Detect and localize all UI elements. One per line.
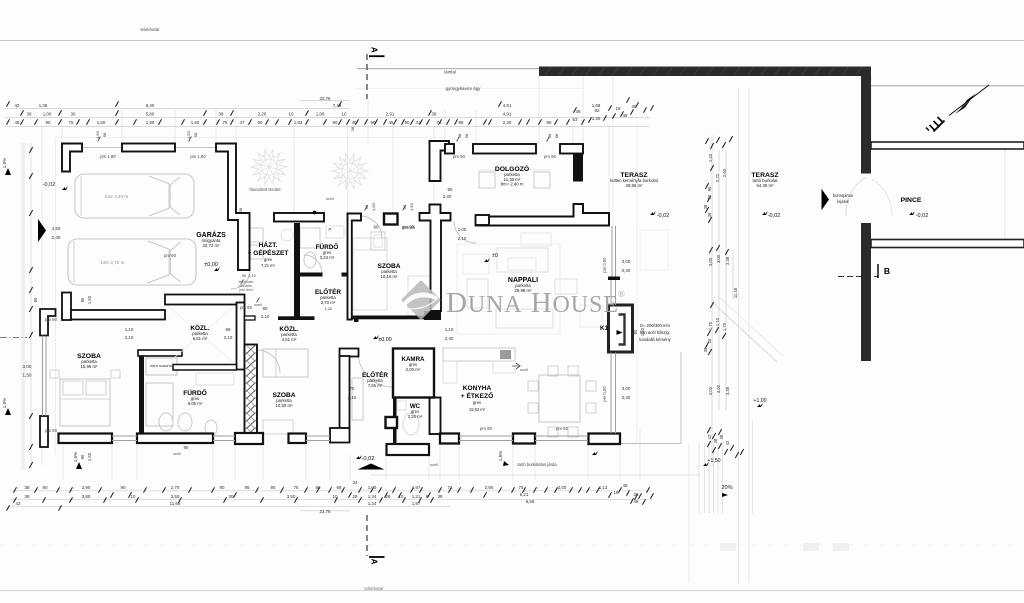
svg-text:1,5%: 1,5% — [2, 158, 7, 168]
svg-text:98: 98 — [459, 120, 464, 125]
svg-text:38: 38 — [703, 204, 708, 209]
svg-text:58: 58 — [102, 132, 107, 137]
svg-text:10: 10 — [131, 494, 136, 499]
svg-text:38: 38 — [219, 112, 224, 117]
svg-text:75: 75 — [69, 120, 74, 125]
svg-text:5,80: 5,80 — [146, 112, 155, 117]
svg-text:45: 45 — [389, 120, 394, 125]
svg-text:11,48: 11,48 — [733, 287, 738, 298]
svg-text:1,10: 1,10 — [445, 327, 454, 332]
svg-text:K1: K1 — [600, 325, 608, 332]
svg-text:6,21: 6,21 — [520, 492, 529, 497]
svg-text:90: 90 — [402, 204, 407, 209]
svg-text:DUNA HOUSE: DUNA HOUSE — [446, 287, 619, 319]
svg-text:lejárat: lejárat — [837, 199, 849, 204]
svg-text:98: 98 — [226, 327, 231, 332]
svg-text:3,38: 3,38 — [725, 386, 730, 395]
svg-text:+1,00: +1,00 — [753, 398, 766, 404]
svg-text:1,50: 1,50 — [371, 202, 376, 211]
svg-text:90: 90 — [547, 120, 552, 125]
svg-text:10,16 m²: 10,16 m² — [381, 274, 399, 279]
svg-text:A: A — [370, 559, 379, 565]
svg-text:4,51 m²: 4,51 m² — [282, 337, 297, 342]
svg-text:90: 90 — [33, 297, 38, 302]
svg-text:szell: szell — [326, 196, 334, 201]
svg-text:szell: szell — [254, 302, 262, 307]
svg-text:2,10: 2,10 — [248, 274, 255, 278]
svg-text:gres: gres — [264, 257, 272, 262]
svg-text:90: 90 — [242, 274, 246, 278]
svg-text:90: 90 — [448, 187, 453, 192]
svg-text:63: 63 — [573, 117, 578, 122]
svg-text:4,50: 4,50 — [52, 226, 61, 231]
svg-text:pm 1,80: pm 1,80 — [190, 154, 206, 159]
svg-text:2,10: 2,10 — [125, 335, 134, 340]
svg-text:75: 75 — [223, 120, 228, 125]
svg-text:3,50: 3,50 — [287, 494, 296, 499]
svg-text:HÁZT.: HÁZT. — [259, 240, 278, 249]
svg-text:92: 92 — [595, 108, 600, 113]
svg-text:2,70 m²: 2,70 m² — [321, 300, 336, 305]
svg-text:-0,02: -0,02 — [916, 213, 929, 219]
svg-text:2,00: 2,00 — [558, 485, 567, 490]
svg-text:1,30: 1,30 — [592, 116, 601, 121]
svg-text:2,70: 2,70 — [171, 485, 180, 490]
svg-text:3,50: 3,50 — [171, 494, 180, 499]
svg-text:1,34: 1,34 — [368, 501, 377, 506]
svg-text:4,91: 4,91 — [503, 103, 512, 108]
svg-text:pm 90: pm 90 — [480, 426, 493, 431]
svg-text:bm= 2,40 m: bm= 2,40 m — [501, 182, 524, 187]
svg-text:2,40: 2,40 — [622, 395, 631, 400]
svg-text:3,38: 3,38 — [725, 256, 730, 265]
svg-text:90: 90 — [43, 485, 48, 490]
svg-text:10: 10 — [289, 112, 294, 117]
svg-text:30: 30 — [634, 492, 639, 497]
svg-text:pm 90: pm 90 — [556, 426, 569, 431]
svg-text:28: 28 — [386, 494, 391, 499]
svg-text:3,00: 3,00 — [622, 259, 631, 264]
svg-text:2,40: 2,40 — [52, 235, 61, 240]
svg-text:bmr 2,40 m: bmr 2,40 m — [105, 194, 128, 199]
svg-text:+ GÉPÉSZET: + GÉPÉSZET — [248, 248, 289, 257]
svg-text:pm 90: pm 90 — [240, 305, 253, 310]
svg-text:45: 45 — [352, 120, 357, 125]
svg-text:90: 90 — [220, 485, 225, 490]
svg-text:tartó burkolatos járda: tartó burkolatos járda — [517, 462, 557, 467]
svg-text:szell: szell — [173, 451, 181, 456]
svg-text:2,90: 2,90 — [82, 485, 91, 490]
svg-text:38: 38 — [576, 109, 581, 114]
svg-text:3,00: 3,00 — [23, 364, 32, 369]
svg-text:1,97: 1,97 — [412, 485, 421, 490]
svg-text:2,10: 2,10 — [224, 335, 233, 340]
svg-text:pm 90: pm 90 — [544, 154, 557, 159]
svg-text:1,21: 1,21 — [412, 494, 421, 499]
svg-text:38: 38 — [707, 212, 712, 217]
svg-text:kandalló kémény: kandalló kémény — [639, 337, 671, 342]
svg-text:2,91: 2,91 — [386, 112, 395, 117]
svg-text:1,5%: 1,5% — [73, 452, 78, 462]
svg-text:pm 90: pm 90 — [164, 253, 177, 258]
svg-text:2,90: 2,90 — [485, 485, 494, 490]
svg-text:38: 38 — [719, 434, 724, 439]
svg-text:2,25 m²: 2,25 m² — [408, 414, 423, 419]
svg-text:2,10: 2,10 — [348, 395, 357, 400]
svg-text:2,00 m²: 2,00 m² — [406, 367, 421, 372]
svg-text:90: 90 — [46, 120, 51, 125]
svg-text:PINCE: PINCE — [901, 197, 922, 204]
svg-text:®: ® — [618, 289, 625, 299]
svg-text:telekhatár: telekhatár — [140, 27, 160, 32]
svg-text:42: 42 — [16, 501, 21, 506]
svg-text:90: 90 — [271, 485, 276, 490]
svg-text:31: 31 — [416, 120, 421, 125]
svg-text:1,70: 1,70 — [708, 321, 713, 330]
svg-text:1,5%: 1,5% — [498, 451, 503, 461]
svg-text:gyöngykavics ágy: gyöngykavics ágy — [446, 86, 481, 91]
svg-text:2,10: 2,10 — [458, 236, 467, 241]
svg-text:38: 38 — [25, 494, 30, 499]
svg-text:18: 18 — [614, 490, 619, 495]
svg-text:pm 90: pm 90 — [45, 428, 58, 433]
svg-text:3,00: 3,00 — [716, 254, 721, 263]
svg-text:-0,02: -0,02 — [43, 182, 56, 188]
svg-text:48: 48 — [15, 120, 20, 125]
svg-text:58: 58 — [554, 133, 559, 138]
svg-text:1,10: 1,10 — [125, 327, 134, 332]
svg-text:bmr 2,70 m: bmr 2,70 m — [101, 260, 124, 265]
svg-text:3,00: 3,00 — [716, 384, 721, 393]
svg-text:28,86 m²: 28,86 m² — [626, 183, 644, 188]
svg-text:1,50: 1,50 — [97, 120, 106, 125]
svg-text:90: 90 — [263, 306, 268, 311]
svg-text:pm 0,00: pm 0,00 — [602, 386, 607, 402]
svg-text:6,59: 6,59 — [526, 499, 535, 504]
svg-text:+1,50: +1,50 — [707, 458, 720, 464]
svg-text:75: 75 — [519, 485, 524, 490]
svg-text:9,06 m²: 9,06 m² — [188, 401, 203, 406]
svg-text:10: 10 — [399, 494, 404, 499]
svg-text:1,40: 1,40 — [708, 153, 713, 162]
svg-text:1,50: 1,50 — [409, 202, 414, 211]
svg-text:90: 90 — [80, 297, 85, 302]
svg-text:20%: 20% — [721, 485, 732, 491]
svg-text:32,72 m²: 32,72 m² — [203, 243, 221, 248]
svg-text:90: 90 — [316, 485, 321, 490]
svg-text:38: 38 — [713, 438, 718, 443]
svg-text:38: 38 — [703, 347, 708, 352]
svg-text:42: 42 — [725, 440, 730, 445]
svg-text:telekhatár: telekhatár — [364, 586, 384, 591]
svg-text:1,50: 1,50 — [87, 295, 92, 304]
svg-text:30: 30 — [707, 194, 712, 199]
svg-text:22,76: 22,76 — [320, 96, 332, 101]
svg-text:infra szauna: infra szauna — [150, 363, 173, 368]
svg-text:szell: szell — [430, 462, 438, 467]
svg-text:2,10: 2,10 — [261, 314, 270, 319]
svg-text:30: 30 — [632, 104, 637, 109]
svg-text:2,22: 2,22 — [715, 173, 720, 182]
svg-text:1,97: 1,97 — [412, 501, 421, 506]
svg-text:10,50 m²: 10,50 m² — [276, 403, 294, 408]
svg-text:90: 90 — [121, 485, 126, 490]
svg-text:3,24 m²: 3,24 m² — [320, 255, 335, 260]
svg-text:pm 90: pm 90 — [403, 225, 416, 230]
svg-text:±0: ±0 — [492, 253, 498, 259]
svg-text:30: 30 — [229, 494, 234, 499]
svg-text:1,50: 1,50 — [186, 130, 191, 139]
svg-text:3,00: 3,00 — [622, 386, 631, 391]
svg-text:1,50: 1,50 — [23, 373, 32, 378]
svg-text:füvesített terület: füvesített terület — [249, 187, 281, 192]
svg-text:1,5%: 1,5% — [2, 398, 7, 408]
svg-text:1,83: 1,83 — [294, 120, 303, 125]
svg-text:3,80: 3,80 — [82, 494, 91, 499]
svg-text:támfal: támfal — [444, 70, 456, 75]
svg-text:2,40: 2,40 — [443, 194, 452, 199]
svg-text:kan acél hőszig.: kan acél hőszig. — [640, 330, 670, 335]
svg-text:1,50: 1,50 — [191, 120, 200, 125]
svg-text:1,70: 1,70 — [722, 322, 727, 331]
svg-text:-0,02: -0,02 — [657, 213, 670, 219]
svg-text:28,98 m²: 28,98 m² — [515, 288, 533, 293]
svg-text:64,39 m²: 64,39 m² — [757, 183, 775, 188]
svg-text:90: 90 — [364, 204, 369, 209]
svg-text:48: 48 — [634, 499, 639, 504]
svg-text:2,30: 2,30 — [503, 120, 512, 125]
svg-text:1,00: 1,00 — [458, 227, 467, 232]
svg-text:71: 71 — [448, 485, 453, 490]
svg-text:68: 68 — [337, 485, 342, 490]
svg-text:38: 38 — [432, 112, 437, 117]
svg-text:38: 38 — [238, 207, 243, 212]
svg-text:+ ÉTKEZŐ: + ÉTKEZŐ — [461, 391, 493, 400]
svg-text:58: 58 — [193, 132, 198, 137]
svg-text:2,20: 2,20 — [258, 112, 267, 117]
svg-text:±0,00: ±0,00 — [378, 337, 391, 343]
svg-text:2,60: 2,60 — [722, 168, 727, 177]
svg-text:38: 38 — [438, 494, 443, 499]
svg-text:-0,02: -0,02 — [361, 456, 374, 462]
svg-text:P: P — [329, 227, 332, 232]
svg-text:3,00: 3,00 — [708, 257, 713, 266]
svg-text:18: 18 — [616, 106, 621, 111]
svg-text:KONYHA: KONYHA — [463, 385, 492, 392]
svg-text:7,49: 7,49 — [333, 103, 342, 108]
svg-text:19,53 m²: 19,53 m² — [469, 407, 486, 412]
svg-text:D= 200/300 mm: D= 200/300 mm — [640, 323, 670, 328]
svg-text:2,40: 2,40 — [445, 336, 454, 341]
svg-text:4,91: 4,91 — [503, 112, 512, 117]
svg-text:95: 95 — [245, 485, 250, 490]
svg-text:11,96: 11,96 — [170, 501, 181, 506]
svg-text:1,80: 1,80 — [316, 112, 325, 117]
svg-text:szell: szell — [520, 367, 528, 372]
svg-text:90: 90 — [80, 454, 85, 459]
svg-text:6,61 m²: 6,61 m² — [193, 336, 208, 341]
svg-text:pm 1,80: pm 1,80 — [100, 154, 116, 159]
svg-text:borospince: borospince — [833, 193, 854, 198]
svg-text:22,76: 22,76 — [320, 509, 332, 514]
svg-text:58: 58 — [464, 133, 469, 138]
svg-text:38: 38 — [25, 485, 30, 490]
svg-text:30: 30 — [707, 338, 712, 343]
svg-text:1,50: 1,50 — [87, 452, 92, 461]
svg-text:pm 0,00: pm 0,00 — [602, 257, 607, 273]
svg-text:90: 90 — [405, 120, 410, 125]
svg-text:pm 90: pm 90 — [45, 317, 58, 322]
svg-text:1,28: 1,28 — [324, 307, 331, 311]
svg-text:A: A — [370, 47, 379, 53]
svg-text:90: 90 — [633, 329, 638, 334]
svg-text:90: 90 — [184, 445, 189, 450]
svg-text:7,65 m²: 7,65 m² — [368, 383, 383, 388]
svg-text:90: 90 — [333, 120, 338, 125]
svg-text:90: 90 — [374, 225, 379, 230]
svg-text:3,00: 3,00 — [708, 386, 713, 395]
svg-text:1,10: 1,10 — [715, 317, 720, 326]
svg-text:42: 42 — [707, 434, 712, 439]
svg-text:járó létra: járó létra — [238, 288, 252, 292]
svg-text:1,00: 1,00 — [43, 112, 52, 117]
svg-text:30: 30 — [71, 112, 76, 117]
svg-text:47: 47 — [240, 120, 245, 125]
svg-text:48: 48 — [623, 483, 628, 488]
svg-text:58: 58 — [457, 133, 462, 138]
svg-text:1,00: 1,00 — [368, 485, 377, 490]
svg-text:7,21 m²: 7,21 m² — [261, 263, 276, 268]
svg-text:gres: gres — [473, 400, 481, 405]
svg-text:90: 90 — [258, 120, 263, 125]
svg-text:42: 42 — [15, 103, 20, 108]
svg-text:75: 75 — [350, 386, 355, 391]
svg-text:90: 90 — [371, 120, 376, 125]
svg-text:2,40: 2,40 — [622, 268, 631, 273]
svg-text:96: 96 — [707, 186, 712, 191]
svg-text:10: 10 — [333, 494, 338, 499]
svg-text:1,90: 1,90 — [146, 120, 155, 125]
svg-text:74: 74 — [437, 120, 442, 125]
svg-text:48: 48 — [623, 113, 628, 118]
svg-text:38: 38 — [350, 126, 355, 131]
svg-text:58: 58 — [547, 133, 552, 138]
svg-text:28: 28 — [353, 494, 358, 499]
svg-text:10: 10 — [342, 112, 347, 117]
svg-text:1,38: 1,38 — [39, 103, 48, 108]
svg-text:6,40: 6,40 — [146, 103, 155, 108]
svg-text:34: 34 — [353, 480, 358, 485]
svg-text:38: 38 — [27, 112, 32, 117]
svg-text:B: B — [884, 266, 890, 276]
svg-text:1,13: 1,13 — [599, 485, 608, 490]
svg-text:1,50: 1,50 — [95, 130, 100, 139]
svg-text:1,34: 1,34 — [368, 494, 377, 499]
svg-text:75: 75 — [294, 485, 299, 490]
svg-text:±0,00: ±0,00 — [204, 262, 217, 268]
svg-text:pm 90: pm 90 — [453, 154, 466, 159]
svg-text:15,96 m²: 15,96 m² — [81, 364, 99, 369]
svg-text:-0,02: -0,02 — [768, 213, 781, 219]
